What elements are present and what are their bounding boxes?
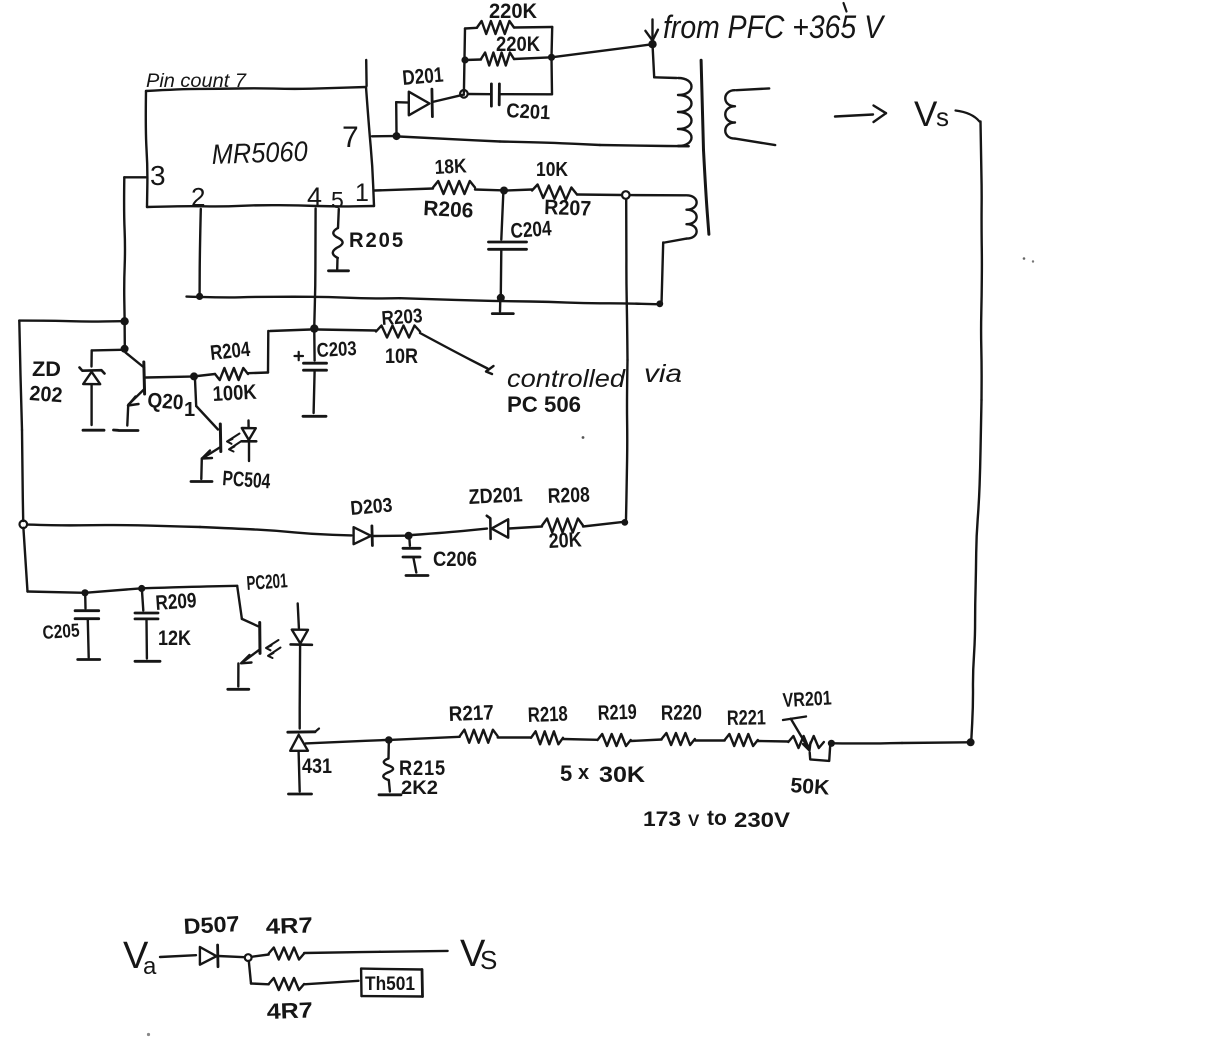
label R208	[547, 484, 590, 508]
svg-text:MR5060: MR5060	[211, 136, 308, 170]
label C203	[316, 338, 357, 362]
svg-text:1: 1	[184, 399, 195, 421]
diode D203	[354, 526, 405, 546]
label R221	[727, 706, 767, 730]
resistor R217	[460, 730, 498, 743]
svg-text:s: s	[936, 102, 949, 132]
label controlled via	[507, 360, 682, 393]
wire 4R7 to Vs	[304, 951, 448, 953]
wire bottom branch	[28, 586, 238, 593]
junction R215	[385, 736, 393, 744]
node D203 branch	[20, 521, 28, 529]
pin label 7	[342, 121, 359, 154]
label 12K	[158, 627, 191, 650]
label Va	[123, 935, 157, 980]
wire R221-VR201	[758, 740, 789, 743]
label PC 506	[507, 392, 581, 417]
svg-text:from PFC +365 V: from PFC +365 V	[663, 9, 885, 45]
label 5x 30K	[560, 761, 645, 787]
IC U MR5060 box	[146, 60, 374, 207]
capacitor C204	[489, 191, 527, 295]
svg-text:2K2: 2K2	[401, 778, 438, 799]
resistor R205	[333, 209, 343, 270]
svg-text:10K: 10K	[536, 159, 568, 181]
label 220K (upper)	[489, 0, 537, 23]
optocoupler transistor PC201	[237, 586, 260, 687]
wire Vs sense down right side	[956, 111, 982, 741]
wire pin1 to R206	[375, 189, 434, 191]
wire left border horizontal	[19, 319, 121, 322]
svg-text:2: 2	[191, 182, 205, 212]
junction C203/pin4/R203 node	[310, 324, 318, 332]
svg-text:C203: C203	[316, 338, 357, 362]
wire 431 to divider	[306, 740, 386, 743]
resistor R207	[507, 185, 577, 201]
label PC201	[246, 570, 288, 595]
svg-text:R208: R208	[547, 484, 590, 508]
transformer primary winding	[653, 44, 692, 146]
junction at left of lower 220K	[461, 56, 468, 63]
wire left node to D203	[27, 525, 351, 536]
label R205	[349, 229, 405, 252]
LED of PC504	[242, 421, 256, 462]
svg-text:C206: C206	[433, 548, 477, 571]
wire from snubber to PFC node	[552, 44, 653, 57]
label from PFC +365 V	[663, 3, 885, 45]
label C205	[42, 620, 81, 644]
svg-text:PC201: PC201	[246, 570, 288, 595]
svg-text:V: V	[914, 95, 938, 134]
svg-text:V: V	[688, 811, 700, 830]
capacitor C203 polarity +	[295, 352, 304, 360]
svg-text:R221: R221	[727, 706, 767, 730]
svg-text:x: x	[578, 762, 589, 784]
resistor R221	[725, 734, 758, 746]
junction VR201 wiper/output	[828, 740, 835, 747]
pointer line controlled via PC506	[420, 333, 494, 374]
label R207	[544, 196, 592, 221]
ground R215	[379, 793, 401, 796]
svg-text:230V: 230V	[734, 809, 790, 832]
junction pin2 on bus	[196, 293, 203, 300]
resistor R209 (drawn as bars)	[135, 590, 158, 659]
resistor R204	[198, 368, 269, 380]
label D201	[401, 63, 444, 90]
ground Q201	[114, 429, 139, 432]
label Pin count 7	[146, 71, 247, 92]
wire R215 node to R217	[393, 737, 460, 740]
ground C203	[303, 415, 326, 418]
svg-text:30K: 30K	[599, 762, 645, 787]
wire R219-R220	[631, 740, 662, 742]
svg-text:10R: 10R	[385, 345, 418, 368]
pin label 4	[307, 182, 322, 212]
svg-text:220K: 220K	[496, 33, 540, 56]
pin label 2	[191, 182, 205, 212]
junction R208 / feedback vertical	[621, 519, 628, 526]
transformer secondary winding	[725, 88, 775, 145]
wire pin3 left	[124, 177, 146, 346]
svg-text:R217: R217	[448, 701, 494, 726]
label R209	[155, 589, 198, 615]
label VR201	[782, 687, 832, 712]
svg-text:7: 7	[342, 121, 359, 154]
wire R217-R218	[498, 736, 531, 738]
label 4R7 (upper)	[265, 912, 313, 939]
svg-text:ZD: ZD	[32, 358, 61, 381]
capacitor C201	[468, 84, 552, 106]
wire D201 left corner down to pin7 node	[395, 102, 398, 133]
label Vs (top)	[914, 95, 949, 134]
svg-text:5: 5	[560, 761, 572, 786]
svg-text:to: to	[707, 807, 727, 830]
svg-text:R220: R220	[661, 701, 702, 725]
svg-text:D201: D201	[401, 63, 444, 90]
wire pin2 down	[200, 209, 201, 293]
junction sense line bottom	[967, 738, 975, 746]
svg-text:18K: 18K	[434, 155, 468, 179]
junction C204 on bus	[497, 294, 505, 302]
zener ZD201	[487, 516, 542, 539]
svg-text:Th501: Th501	[365, 974, 415, 995]
node aux winding / R207 / feedback	[622, 191, 630, 199]
label 10R	[385, 345, 418, 368]
wire R220-R221	[695, 739, 725, 741]
svg-text:100K: 100K	[212, 381, 257, 406]
capacitor C206	[403, 539, 420, 573]
ground stub below bus at C204	[492, 299, 513, 314]
wire C203-node to R204 corner	[268, 330, 311, 373]
svg-text:20K: 20K	[548, 528, 582, 553]
wire snubber loop right vertical	[550, 27, 553, 94]
wire VR201 to sense line	[834, 742, 968, 743]
wire pin7 node to transformer primary bottom	[399, 137, 689, 147]
svg-text:C205: C205	[42, 620, 81, 644]
light arrows PC201	[266, 640, 281, 658]
svg-text:a: a	[143, 953, 157, 980]
resistor R219	[598, 734, 631, 746]
label MR5060	[211, 136, 308, 170]
ground R209	[135, 660, 160, 663]
svg-text:1: 1	[355, 179, 369, 207]
node +365V from PFC	[648, 40, 656, 48]
wire R207 to aux node	[577, 193, 622, 196]
ground C205	[78, 658, 100, 661]
transistor Q201	[126, 353, 145, 426]
ground C206	[406, 574, 428, 577]
pin label 5	[331, 187, 344, 213]
label Q201	[147, 389, 195, 421]
node pin7/D201/snubber return	[393, 132, 401, 140]
label R215	[399, 757, 446, 780]
pin label 3	[150, 160, 166, 191]
junction at right of lower 220K	[548, 54, 555, 61]
svg-text:12K: 12K	[158, 627, 191, 650]
svg-text:Pin count 7: Pin count 7	[146, 71, 247, 92]
label 100K	[212, 381, 257, 406]
wire base node to Q201	[146, 375, 191, 378]
svg-text:C201: C201	[506, 100, 551, 124]
ground PC201	[228, 688, 249, 691]
LED of PC201	[291, 604, 312, 729]
wire node to ZD202	[92, 350, 122, 367]
svg-text:VR201: VR201	[782, 687, 832, 712]
svg-text:173: 173	[643, 808, 681, 831]
transformer core	[701, 60, 709, 234]
svg-text:R209: R209	[155, 589, 198, 615]
label C201	[506, 100, 551, 124]
wire Va to D507	[160, 955, 196, 957]
svg-text:R215: R215	[399, 757, 446, 780]
wire R218-R219	[563, 738, 598, 741]
svg-text:4R7: 4R7	[266, 997, 313, 1024]
resistor 4R7 (upper)	[252, 948, 305, 960]
label 431	[302, 755, 332, 778]
wire C206 node to ZD201	[412, 529, 487, 535]
svg-text:ZD201: ZD201	[468, 483, 523, 509]
svg-text:220K: 220K	[489, 0, 537, 23]
label R204	[209, 338, 251, 365]
wire R206 to node	[475, 188, 501, 191]
label ZD 202	[29, 358, 64, 407]
svg-text:via: via	[644, 360, 682, 388]
transformer auxiliary winding	[630, 195, 697, 304]
label R220	[661, 701, 702, 725]
resistor R218	[531, 731, 563, 744]
junction pin3/Q201 collector node	[121, 345, 129, 353]
label 173V to 230V	[643, 807, 790, 832]
resistor 4R7 (lower)	[251, 978, 359, 990]
wire left border vertical	[19, 321, 23, 521]
stray dot marks	[147, 257, 1034, 1036]
svg-text:3: 3	[150, 160, 166, 191]
svg-text:50K: 50K	[790, 774, 831, 800]
svg-text:R207: R207	[544, 196, 592, 221]
label R203	[381, 305, 423, 330]
wire node down to lower 4R7	[249, 961, 251, 984]
resistor 220K (upper)	[465, 21, 552, 34]
resistor R220	[662, 733, 695, 745]
label R206	[423, 197, 474, 223]
diode D507	[200, 945, 245, 967]
svg-text:R204: R204	[209, 338, 251, 365]
wire snubber loop left vertical	[464, 29, 465, 94]
arrow to Vs	[835, 106, 886, 123]
svg-text:Q20: Q20	[147, 389, 185, 414]
label 220K (lower)	[496, 33, 540, 56]
wire left border vertical lower	[23, 528, 27, 592]
zener ZD202	[80, 368, 105, 426]
label R217	[448, 701, 494, 726]
svg-text:S: S	[480, 945, 497, 975]
svg-text:431: 431	[302, 755, 332, 778]
svg-text:D203: D203	[350, 494, 394, 520]
label 18K	[434, 155, 468, 179]
resistor 220K (lower)	[465, 53, 552, 66]
pin label 1	[355, 179, 369, 207]
svg-text:PC504: PC504	[222, 467, 272, 493]
wire base node down to PC504	[195, 380, 218, 430]
label 2K2	[401, 778, 438, 799]
label 10K	[536, 159, 568, 181]
svg-text:R203: R203	[381, 305, 423, 330]
ground ZD202	[83, 429, 104, 432]
arrow into +365V node	[645, 20, 658, 41]
label R218	[527, 703, 568, 727]
junction R209	[138, 585, 145, 592]
label Vs (bottom)	[460, 933, 497, 975]
svg-text:5: 5	[331, 187, 344, 213]
wire feedback vertical to R208	[626, 199, 628, 519]
diode D201	[396, 89, 464, 117]
svg-text:D507: D507	[183, 911, 240, 939]
junction left border / pin3 line	[120, 317, 128, 325]
junction R206/R207/C204	[500, 187, 508, 195]
junction D203/C206	[405, 532, 413, 540]
label Th501	[365, 974, 415, 995]
thermistor Th501 box	[361, 969, 422, 997]
wire pin7 to node	[372, 135, 393, 138]
svg-text:R218: R218	[527, 703, 568, 727]
svg-text:4R7: 4R7	[265, 912, 313, 939]
svg-text:R206: R206	[423, 197, 474, 223]
node D507 output	[245, 954, 252, 961]
label R219	[597, 701, 637, 725]
junction C205	[81, 589, 88, 596]
node junction D201/C201/220K	[460, 90, 468, 98]
ground 431	[289, 793, 312, 796]
label ZD201	[468, 483, 523, 509]
ground R205	[329, 269, 349, 272]
svg-text:202: 202	[29, 382, 64, 407]
wire ground bus	[187, 297, 661, 305]
resistor R203	[318, 326, 420, 338]
label D507	[183, 911, 240, 939]
label 50K	[790, 774, 831, 800]
junction bus / aux winding return	[656, 300, 663, 307]
capacitor C205	[75, 594, 99, 658]
label C204	[510, 217, 553, 243]
svg-text:C204: C204	[510, 217, 553, 243]
svg-text:R205: R205	[349, 229, 405, 252]
label 4R7 (lower)	[266, 997, 313, 1024]
potentiometer VR201	[783, 717, 830, 761]
svg-text:PC 506: PC 506	[507, 392, 581, 417]
label PC504	[222, 467, 272, 493]
junction Q201 base node	[190, 372, 198, 380]
label 20K	[548, 528, 582, 553]
light arrows PC504	[227, 434, 242, 452]
optocoupler transistor PC504	[201, 424, 221, 479]
resistor R206	[433, 181, 475, 194]
svg-text:4: 4	[307, 182, 322, 212]
svg-text:controlled: controlled	[507, 365, 626, 393]
label D203	[350, 494, 394, 520]
resistor R215	[383, 743, 393, 792]
capacitor C203	[304, 332, 327, 413]
wire pin4 down	[314, 209, 315, 326]
resistor R208	[542, 519, 623, 533]
shunt regulator 431	[288, 729, 319, 792]
label C206	[433, 548, 477, 571]
ground PC504	[191, 480, 212, 483]
svg-text:R219: R219	[597, 701, 637, 725]
